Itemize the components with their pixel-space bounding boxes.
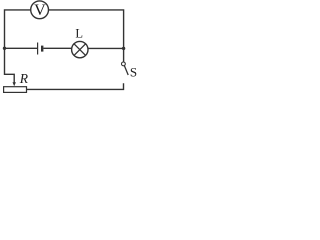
svg-text:R: R <box>19 71 29 86</box>
svg-text:V: V <box>34 2 46 19</box>
svg-text:S: S <box>130 65 137 80</box>
svg-text:L: L <box>75 27 83 41</box>
